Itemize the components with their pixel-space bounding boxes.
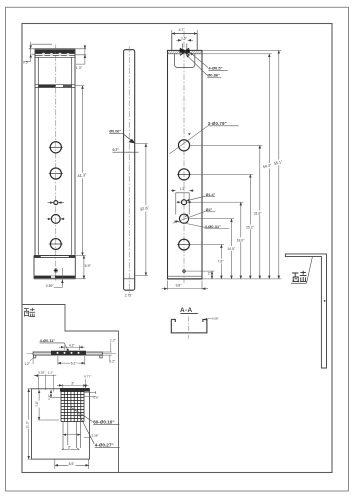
view1 bottom box: [34, 256, 75, 279]
leader dia1.4 to circle3: [186, 196, 205, 201]
view1 circle3 pointing arrows: [48, 202, 54, 204]
right part label leader: [307, 257, 313, 284]
view3 centerline: [183, 31, 185, 283]
view3 hole circle 4: [179, 214, 188, 223]
dim 18.0 ladder: [240, 202, 242, 279]
svg-text:0.08": 0.08": [212, 317, 219, 321]
leader 4-dia0.5: [190, 53, 208, 68]
view1 cap hatched band: [35, 50, 74, 54]
svg-text:9.8": 9.8": [176, 283, 183, 287]
view1 inner wall lines: [38, 57, 71, 255]
dim 0.77 (plan top right): [84, 379, 86, 388]
svg-text:3-Ø0.79": 3-Ø0.79": [208, 121, 227, 126]
dim 31.8 ladder: [259, 145, 261, 279]
svg-text:0.59": 0.59": [46, 284, 55, 288]
view3 hole circle 1: [177, 140, 191, 273]
svg-text:1.5": 1.5": [181, 36, 188, 40]
A-A centerline: [188, 317, 190, 339]
view3 small hole circle 3: [182, 200, 187, 205]
view1 joint double line: [35, 85, 75, 88]
dim 25.2 ladder: [249, 174, 251, 279]
cover section raised dark middle: [51, 351, 86, 355]
svg-text:4-Ø0.31": 4-Ø0.31": [205, 224, 221, 229]
dim 0.5 (view1 top-left): [25, 42, 52, 62]
svg-text:11.3": 11.3": [25, 420, 29, 428]
svg-text:8.5": 8.5": [69, 462, 76, 466]
svg-text:1.5": 1.5": [180, 187, 186, 191]
view1 cap band hole bumps: [42, 53, 70, 56]
dim 5.9 (view1 bottom right): [75, 256, 86, 279]
leader 4-dia0.31 to circle4: [174, 221, 205, 227]
view1 cap lines: [35, 56, 75, 58]
svg-text:1.2": 1.2": [47, 394, 51, 399]
dim 11.3 (plan left): [28, 389, 32, 459]
svg-text:0.77": 0.77": [84, 375, 91, 379]
dim 14.5 ladder: [231, 219, 233, 279]
leader dia0.86: [186, 55, 207, 76]
dim 6.2 (cover bottom): [58, 356, 85, 365]
view3 pocket around circle3: [176, 193, 189, 215]
view1 centerline: [55, 45, 57, 282]
leader 4-dia0.27: [79, 414, 95, 444]
svg-text:4.7": 4.7": [179, 28, 186, 32]
inner drawing frame: [22, 24, 332, 473]
svg-text:1.3": 1.3": [76, 66, 83, 70]
view3 hole circle 5: [179, 239, 190, 250]
svg-text:6.2": 6.2": [71, 361, 78, 365]
svg-text:0.7": 0.7": [113, 148, 120, 152]
svg-text:0.6": 0.6": [93, 395, 98, 399]
svg-text:1.2": 1.2": [109, 360, 116, 364]
view3 body outline: [168, 50, 203, 279]
svg-text:7.8": 7.8": [35, 400, 39, 407]
dim 3 (plan top): [57, 384, 89, 388]
svg-text:1.2": 1.2": [48, 371, 53, 375]
dim 2 ladder: [211, 271, 213, 279]
dim 1.3 (view1 cap right): [75, 45, 86, 64]
svg-text:60-Ø0.16": 60-Ø0.16": [93, 420, 114, 425]
dim 1.2 (cover left): [32, 357, 34, 364]
view2 lower joint line: [124, 278, 135, 280]
dim 9.8 (view3 bottom): [162, 281, 209, 290]
svg-text:0.55": 0.55": [38, 371, 45, 375]
svg-text:14.5": 14.5": [227, 247, 236, 251]
view1 hole circle 4: [51, 215, 60, 224]
svg-text:4.2": 4.2": [69, 343, 76, 347]
label 顶盖 characters: [292, 271, 307, 282]
svg-text:25.2": 25.2": [246, 226, 255, 230]
plan slot bottom line with ticks: [62, 448, 80, 450]
circle3 pointing arrows: [177, 201, 181, 203]
label 顶盖 (top cover) in detail region: [24, 308, 35, 317]
A-A leader 0.08: [204, 318, 212, 320]
plan outer rect: [32, 389, 90, 459]
A-A channel profile: [171, 319, 207, 333]
view3 tab hidden body below: [175, 54, 195, 68]
svg-text:4-Ø0.11": 4-Ø0.11": [40, 338, 56, 343]
dim 1.2 (plan left small): [50, 390, 61, 398]
right angle part outline: [285, 254, 326, 368]
view1 hole circle 5: [50, 239, 61, 250]
svg-text:Ø1.4": Ø1.4": [206, 193, 216, 197]
svg-text:3.28": 3.28": [91, 434, 98, 438]
svg-text:31.8": 31.8": [254, 211, 263, 215]
dim 7.8 ladder: [220, 245, 222, 279]
dim 4.2 (cover top): [59, 345, 85, 350]
dim 55.1 ladder: [278, 50, 280, 279]
svg-text:Ø0.06": Ø0.06": [109, 130, 121, 134]
plan hole grid: [61, 392, 84, 422]
dim 1.2 (cover bottom right): [102, 355, 112, 362]
view3 right dimension ladder extension lines: [185, 50, 281, 279]
dim 0.6 (plan right small): [84, 391, 96, 397]
plan slot lines below grid: [63, 422, 81, 449]
view3 tab slot lines: [182, 44, 187, 51]
cover section end lips: [33, 355, 102, 358]
view2 centerline: [128, 46, 130, 293]
view1 circle4 pointing arrows: [47, 218, 51, 220]
view2 bar outline: [124, 50, 135, 291]
svg-text:2.75": 2.75": [125, 294, 134, 298]
cover section bar: [33, 352, 102, 355]
dim 1.2 (cover top right): [102, 343, 112, 352]
view1 bottom diamond mark: [54, 269, 57, 272]
svg-text:7.8": 7.8": [218, 260, 225, 264]
plan mid dim line: [63, 434, 81, 436]
right part label underline: [291, 282, 307, 284]
plan top dark band: [60, 388, 90, 392]
leader 3-dia0.79 to circle1: [170, 126, 209, 154]
svg-text:Ø2": Ø2": [206, 208, 213, 212]
dim 4.7 (tab top): [172, 30, 197, 34]
svg-text:18.0": 18.0": [237, 238, 246, 242]
cover section centerline: [27, 353, 117, 355]
dim 1.5 pocket top: [171, 190, 194, 192]
view3 hole circle 2: [178, 169, 189, 180]
view1 bottom dark band: [34, 276, 75, 279]
view3 tab weld dark cluster: [179, 49, 186, 53]
svg-text:0.5": 0.5": [23, 61, 30, 65]
svg-text:Ø0.86": Ø0.86": [207, 73, 220, 78]
dim 54.3 ladder: [268, 54, 270, 279]
dim 3 (plan slot): [67, 445, 70, 449]
dim 7.8 (plan left inner): [38, 390, 59, 420]
dim 8.5 (plan bottom): [55, 459, 89, 469]
dim 0.59 (view1 bottom): [54, 268, 63, 287]
view1 body outline: [35, 49, 75, 255]
view1 hole circle 1: [49, 142, 63, 250]
svg-text:4-Ø0.27": 4-Ø0.27": [95, 443, 114, 448]
svg-text:1.2": 1.2": [110, 339, 117, 343]
view1 small hole circle 3: [54, 201, 58, 205]
dim 1.5 (tab slot): [176, 39, 193, 41]
dim 41.3 (view1 right): [75, 86, 86, 256]
svg-text:4-Ø0.5": 4-Ø0.5": [208, 65, 222, 70]
view3 top band hatch: [168, 51, 202, 54]
leader dia2 to circle4: [173, 211, 205, 223]
svg-text:1.2": 1.2": [24, 362, 31, 366]
plan top-left small dims 0.55 and 1.2: [34, 375, 56, 392]
view3 tiny hole circle 6: [183, 270, 186, 273]
view3 bottom edge thick line: [168, 278, 203, 280]
detail region boundary (stepped): [23, 305, 119, 473]
dim 32.6 (view2 right): [135, 144, 148, 276]
view3 top band line: [168, 53, 203, 55]
view1 joint dark dashes: [39, 85, 56, 87]
leader 60-dia0.16: [71, 407, 93, 422]
right part pin dot: [324, 300, 326, 302]
svg-text:5.9": 5.9": [85, 264, 92, 268]
view3 top tab outline: [172, 34, 197, 51]
view1 hole circle 2: [50, 168, 61, 179]
